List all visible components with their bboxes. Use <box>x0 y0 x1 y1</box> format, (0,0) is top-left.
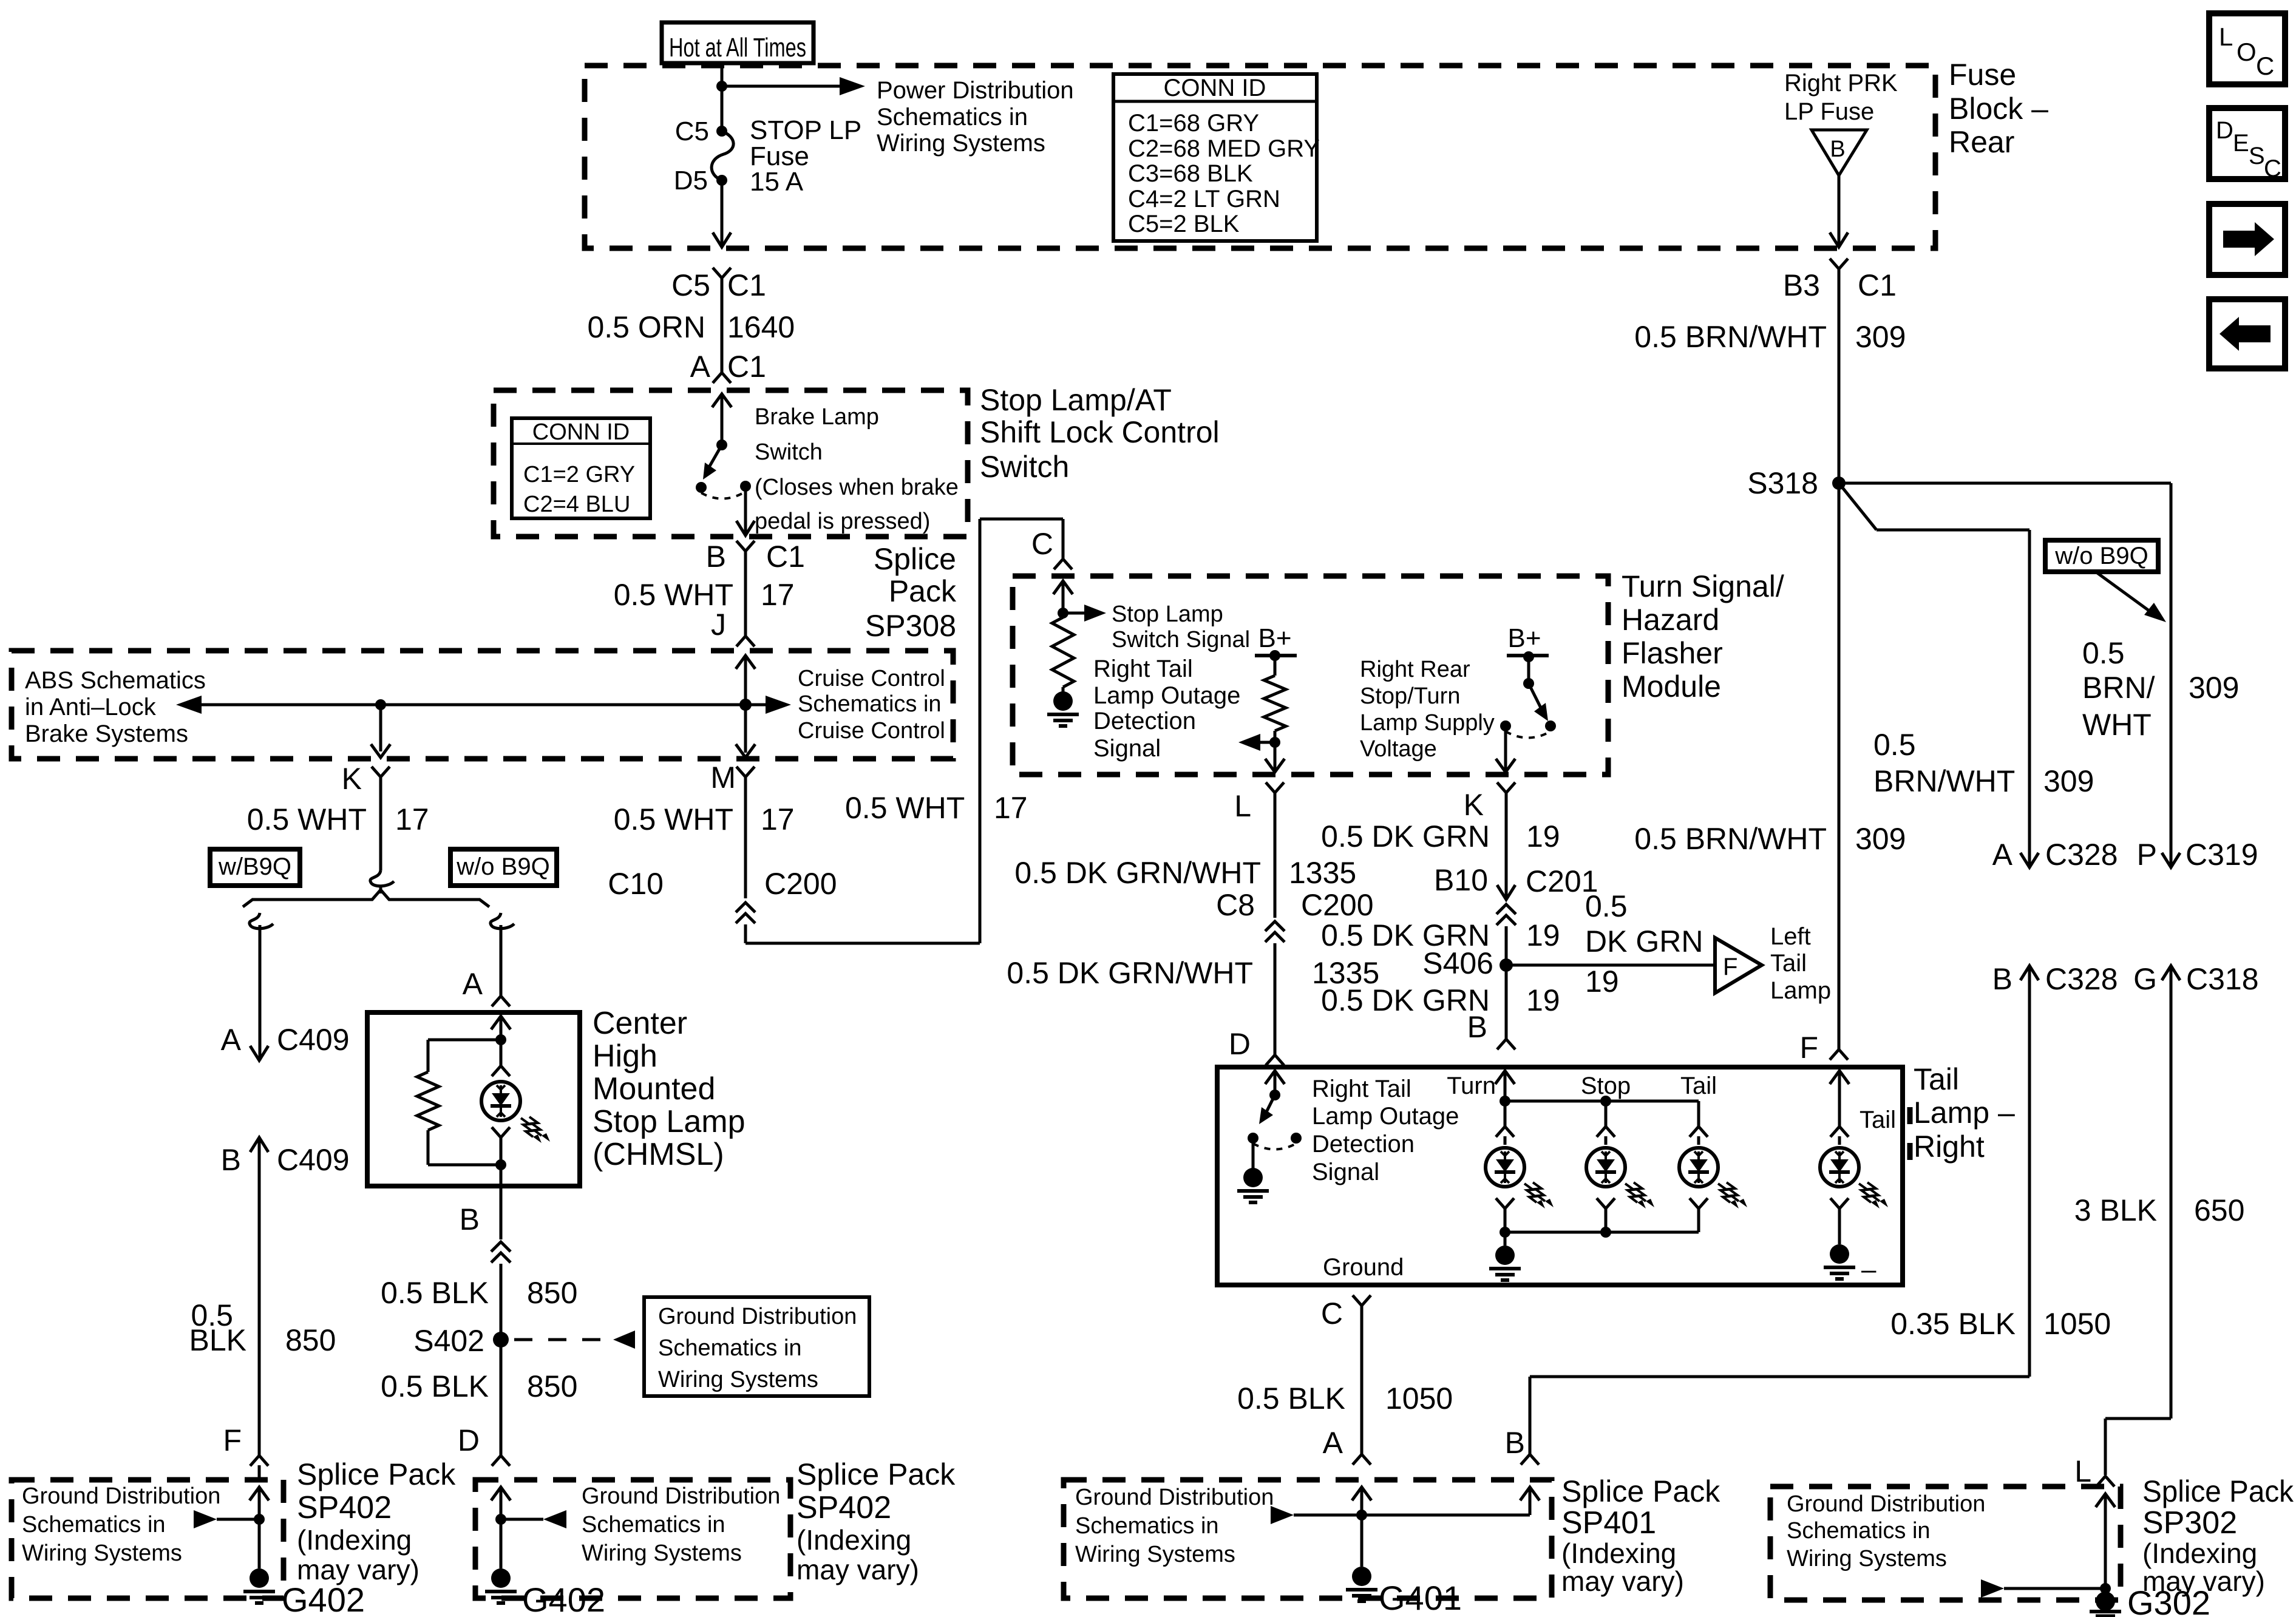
svg-text:L: L <box>2074 1454 2091 1488</box>
svg-text:Lamp –: Lamp – <box>1914 1096 2015 1130</box>
svg-text:DK GRN: DK GRN <box>1585 924 1703 958</box>
svg-text:Block –: Block – <box>1949 92 2048 126</box>
svg-text:Turn: Turn <box>1447 1073 1496 1099</box>
svg-text:C1: C1 <box>727 268 766 302</box>
svg-text:0.5: 0.5 <box>1873 728 1916 762</box>
svg-text:G401: G401 <box>1379 1579 1462 1617</box>
svg-text:19: 19 <box>1526 983 1560 1017</box>
svg-text:C8: C8 <box>1216 888 1255 922</box>
svg-text:SP302: SP302 <box>2142 1505 2237 1541</box>
svg-text:C409: C409 <box>277 1143 350 1177</box>
svg-text:pedal is pressed): pedal is pressed) <box>755 509 930 534</box>
svg-text:B: B <box>1830 137 1845 162</box>
svg-text:Center: Center <box>593 1006 687 1041</box>
svg-text:C: C <box>1321 1297 1343 1331</box>
svg-text:19: 19 <box>1585 964 1619 998</box>
svg-text:w/o B9Q: w/o B9Q <box>2054 543 2148 569</box>
svg-text:C1=68 GRY: C1=68 GRY <box>1128 110 1259 137</box>
svg-text:C2=4 BLU: C2=4 BLU <box>523 492 630 517</box>
svg-text:17: 17 <box>994 791 1028 825</box>
svg-text:Shift Lock Control: Shift Lock Control <box>980 415 1220 449</box>
svg-text:Flasher: Flasher <box>1622 636 1723 670</box>
svg-text:SP402: SP402 <box>297 1490 392 1525</box>
svg-text:Stop Lamp: Stop Lamp <box>1112 602 1223 627</box>
svg-text:C1: C1 <box>727 350 766 384</box>
svg-text:Schematics in: Schematics in <box>798 691 942 717</box>
svg-text:0.5: 0.5 <box>1585 889 1628 923</box>
svg-text:17: 17 <box>395 802 429 836</box>
svg-text:1335: 1335 <box>1289 856 1356 890</box>
svg-text:C318: C318 <box>2186 962 2259 996</box>
svg-text:Ground Distribution: Ground Distribution <box>1075 1485 1274 1510</box>
svg-text:–: – <box>1861 1255 1877 1284</box>
svg-text:0.5 WHT: 0.5 WHT <box>614 802 733 836</box>
svg-text:309: 309 <box>1855 320 1906 354</box>
svg-text:w/B9Q: w/B9Q <box>218 853 291 880</box>
svg-text:S318: S318 <box>1747 466 1818 500</box>
svg-text:M: M <box>710 761 736 795</box>
svg-text:(Indexing: (Indexing <box>297 1524 412 1556</box>
svg-text:850: 850 <box>527 1369 577 1403</box>
svg-text:Ground Distribution: Ground Distribution <box>1787 1491 1985 1517</box>
svg-text:Schematics in: Schematics in <box>877 104 1028 131</box>
svg-text:Tail: Tail <box>1680 1073 1717 1099</box>
svg-text:17: 17 <box>761 578 795 612</box>
svg-text:Signal: Signal <box>1312 1159 1379 1185</box>
svg-text:17: 17 <box>761 802 795 836</box>
svg-text:Switch: Switch <box>755 439 823 465</box>
svg-text:0.5 DK GRN/WHT: 0.5 DK GRN/WHT <box>1007 956 1253 990</box>
svg-text:Lamp: Lamp <box>1770 977 1831 1004</box>
svg-text:Splice Pack: Splice Pack <box>297 1457 456 1491</box>
svg-text:K: K <box>342 762 362 796</box>
svg-text:0.5 BLK: 0.5 BLK <box>381 1369 489 1403</box>
svg-text:SP308: SP308 <box>865 609 956 643</box>
svg-text:BRN/: BRN/ <box>2082 671 2155 705</box>
svg-text:0.5 BLK: 0.5 BLK <box>381 1276 489 1310</box>
svg-text:Switch Signal: Switch Signal <box>1112 627 1250 653</box>
svg-text:0.5 BRN/WHT: 0.5 BRN/WHT <box>1634 822 1827 856</box>
svg-text:1640: 1640 <box>727 310 795 344</box>
svg-text:C409: C409 <box>277 1023 350 1057</box>
svg-text:B: B <box>1992 962 2012 996</box>
svg-text:0.35 BLK: 0.35 BLK <box>1890 1307 2016 1341</box>
svg-text:C: C <box>2256 52 2274 80</box>
svg-text:Tail: Tail <box>1770 950 1807 977</box>
svg-text:650: 650 <box>2194 1193 2244 1227</box>
svg-text:Right PRK: Right PRK <box>1784 70 1898 97</box>
svg-text:J: J <box>711 608 726 642</box>
svg-text:may vary): may vary) <box>1561 1565 1684 1597</box>
svg-text:Tail: Tail <box>1914 1062 1959 1096</box>
svg-text:Power Distribution: Power Distribution <box>877 77 1074 104</box>
svg-text:P: P <box>2137 838 2157 872</box>
svg-text:BLK: BLK <box>189 1323 246 1357</box>
svg-text:(Indexing: (Indexing <box>1561 1537 1676 1569</box>
svg-text:(CHMSL): (CHMSL) <box>593 1137 724 1172</box>
svg-text:C200: C200 <box>1301 888 1374 922</box>
svg-text:S402: S402 <box>413 1324 484 1358</box>
svg-text:850: 850 <box>285 1323 336 1357</box>
svg-text:Ground: Ground <box>1323 1254 1404 1281</box>
svg-text:Stop: Stop <box>1581 1073 1631 1099</box>
svg-text:B: B <box>1467 1010 1487 1044</box>
svg-text:0.5: 0.5 <box>2082 636 2125 670</box>
svg-text:Stop Lamp: Stop Lamp <box>593 1104 746 1139</box>
svg-text:Signal: Signal <box>1093 735 1161 762</box>
svg-text:Splice Pack: Splice Pack <box>2142 1474 2294 1508</box>
svg-text:19: 19 <box>1526 918 1560 952</box>
svg-text:B: B <box>460 1202 480 1236</box>
svg-text:B+: B+ <box>1258 623 1291 653</box>
svg-text:Detection: Detection <box>1093 708 1196 734</box>
svg-text:Cruise Control: Cruise Control <box>798 718 945 744</box>
svg-text:C1=2 GRY: C1=2 GRY <box>523 462 635 487</box>
svg-text:Schematics in: Schematics in <box>582 1512 725 1537</box>
svg-text:B+: B+ <box>1507 623 1541 653</box>
svg-text:STOP LP: STOP LP <box>750 115 861 145</box>
svg-text:may vary): may vary) <box>796 1554 919 1585</box>
svg-text:Wiring Systems: Wiring Systems <box>658 1367 818 1392</box>
svg-text:D: D <box>2216 117 2233 144</box>
svg-text:0.5 BLK: 0.5 BLK <box>1237 1381 1345 1415</box>
svg-text:0.5 BRN/WHT: 0.5 BRN/WHT <box>1634 320 1827 354</box>
svg-text:309: 309 <box>2043 764 2094 798</box>
svg-text:Schematics in: Schematics in <box>1787 1518 1931 1544</box>
svg-text:Hot at All Times: Hot at All Times <box>669 33 806 63</box>
svg-text:Schematics in: Schematics in <box>22 1512 166 1537</box>
svg-text:Right Tail: Right Tail <box>1312 1076 1411 1102</box>
svg-text:309: 309 <box>1855 822 1906 856</box>
svg-text:D: D <box>458 1423 480 1457</box>
svg-text:C328: C328 <box>2045 962 2118 996</box>
svg-text:BRN/WHT: BRN/WHT <box>1873 764 2015 798</box>
svg-text:C5: C5 <box>671 268 710 302</box>
svg-text:Splice Pack: Splice Pack <box>1561 1474 1720 1508</box>
svg-text:F: F <box>1723 954 1737 980</box>
svg-text:1050: 1050 <box>2043 1307 2111 1341</box>
svg-text:C4=2 LT GRN: C4=2 LT GRN <box>1128 186 1280 212</box>
svg-text:Wiring Systems: Wiring Systems <box>1787 1546 1947 1571</box>
svg-text:Tail: Tail <box>1860 1107 1896 1133</box>
svg-text:C328: C328 <box>2045 838 2118 872</box>
svg-text:Stop Lamp/AT: Stop Lamp/AT <box>980 383 1172 417</box>
svg-text:CONN ID: CONN ID <box>1164 75 1266 101</box>
svg-text:E: E <box>2233 130 2249 157</box>
svg-text:S406: S406 <box>1422 946 1493 980</box>
svg-text:Right Tail: Right Tail <box>1093 656 1193 682</box>
svg-text:C5=2 BLK: C5=2 BLK <box>1128 211 1240 237</box>
svg-text:0.5 DK GRN/WHT: 0.5 DK GRN/WHT <box>1014 856 1261 890</box>
svg-text:Schematics in: Schematics in <box>658 1335 802 1361</box>
svg-text:309: 309 <box>2189 671 2239 705</box>
svg-text:Mounted: Mounted <box>593 1071 715 1107</box>
svg-text:C1: C1 <box>1858 268 1897 302</box>
svg-text:0.5 ORN: 0.5 ORN <box>587 310 705 344</box>
svg-text:Splice: Splice <box>874 542 956 576</box>
svg-text:Pack: Pack <box>889 574 957 608</box>
svg-text:O: O <box>2237 38 2257 66</box>
svg-text:D: D <box>1229 1027 1251 1061</box>
svg-text:Detection: Detection <box>1312 1131 1415 1158</box>
svg-text:Ground Distribution: Ground Distribution <box>22 1483 220 1509</box>
svg-text:Switch: Switch <box>980 450 1069 484</box>
svg-text:may vary): may vary) <box>297 1554 419 1585</box>
svg-text:SP402: SP402 <box>796 1490 891 1525</box>
svg-text:C319: C319 <box>2186 838 2258 872</box>
svg-text:C: C <box>2264 155 2281 182</box>
svg-text:L: L <box>2219 22 2233 51</box>
svg-text:(Indexing: (Indexing <box>2142 1537 2257 1569</box>
svg-text:S: S <box>2249 143 2265 169</box>
svg-text:Wiring Systems: Wiring Systems <box>582 1541 742 1566</box>
svg-text:Right: Right <box>1914 1130 1985 1164</box>
svg-text:3 BLK: 3 BLK <box>2074 1193 2157 1227</box>
svg-text:Wiring Systems: Wiring Systems <box>22 1541 182 1566</box>
svg-text:Turn Signal/: Turn Signal/ <box>1622 569 1784 603</box>
svg-text:Wiring Systems: Wiring Systems <box>877 130 1045 157</box>
svg-text:Lamp Supply: Lamp Supply <box>1360 710 1495 736</box>
svg-text:F: F <box>1799 1031 1818 1065</box>
svg-text:SP401: SP401 <box>1561 1505 1656 1541</box>
svg-text:Lamp Outage: Lamp Outage <box>1093 682 1240 709</box>
svg-text:Left: Left <box>1770 923 1811 950</box>
svg-text:Splice Pack: Splice Pack <box>796 1457 956 1491</box>
svg-text:0.5 WHT: 0.5 WHT <box>247 802 367 836</box>
svg-text:C10: C10 <box>608 867 664 901</box>
svg-text:D5: D5 <box>674 166 708 195</box>
svg-text:Brake Systems: Brake Systems <box>25 720 188 747</box>
svg-text:B: B <box>221 1143 241 1177</box>
svg-text:C1: C1 <box>766 540 805 574</box>
svg-text:K: K <box>1464 788 1484 822</box>
svg-text:Schematics in: Schematics in <box>1075 1513 1219 1539</box>
svg-text:A: A <box>690 350 711 384</box>
svg-text:A: A <box>1323 1426 1343 1460</box>
svg-text:Ground Distribution: Ground Distribution <box>658 1304 857 1329</box>
svg-text:850: 850 <box>527 1276 577 1310</box>
svg-text:B3: B3 <box>1783 268 1820 302</box>
svg-text:A: A <box>463 967 483 1001</box>
svg-text:B10: B10 <box>1434 863 1488 897</box>
svg-text:in Anti–Lock: in Anti–Lock <box>25 694 157 720</box>
svg-text:G: G <box>2133 962 2157 996</box>
svg-text:Module: Module <box>1622 670 1721 703</box>
svg-text:(Closes when brake: (Closes when brake <box>755 475 959 500</box>
svg-text:Voltage: Voltage <box>1360 736 1437 762</box>
svg-text:15 A: 15 A <box>750 167 804 197</box>
svg-text:Fuse: Fuse <box>1949 58 2016 92</box>
svg-text:w/o B9Q: w/o B9Q <box>456 853 549 880</box>
svg-text:0.5 WHT: 0.5 WHT <box>614 578 733 612</box>
svg-text:B: B <box>1505 1426 1525 1460</box>
svg-text:Right Rear: Right Rear <box>1360 657 1470 682</box>
svg-text:0.5 DK GRN: 0.5 DK GRN <box>1321 819 1490 853</box>
svg-text:may vary): may vary) <box>2142 1565 2265 1597</box>
svg-text:LP Fuse: LP Fuse <box>1784 98 1874 125</box>
svg-text:Brake Lamp: Brake Lamp <box>755 404 879 430</box>
svg-text:B: B <box>706 540 726 574</box>
svg-text:0.5 DK GRN: 0.5 DK GRN <box>1321 983 1490 1017</box>
svg-text:Lamp Outage: Lamp Outage <box>1312 1103 1459 1130</box>
svg-text:WHT: WHT <box>2082 708 2152 742</box>
svg-text:CONN ID: CONN ID <box>532 419 630 445</box>
svg-text:Wiring Systems: Wiring Systems <box>1075 1542 1235 1567</box>
svg-text:ABS Schematics: ABS Schematics <box>25 667 206 694</box>
svg-text:Ground Distribution: Ground Distribution <box>582 1483 780 1509</box>
svg-text:0.5 WHT: 0.5 WHT <box>845 791 965 825</box>
svg-text:C5: C5 <box>675 117 709 146</box>
svg-text:C2=68 MED GRY: C2=68 MED GRY <box>1128 135 1320 162</box>
svg-text:Stop/Turn: Stop/Turn <box>1360 683 1460 709</box>
svg-text:C: C <box>1031 527 1053 561</box>
svg-text:L: L <box>1234 789 1251 823</box>
svg-text:C200: C200 <box>764 867 837 901</box>
svg-text:F: F <box>223 1423 242 1457</box>
svg-text:G402: G402 <box>282 1581 365 1617</box>
svg-text:19: 19 <box>1526 819 1560 853</box>
svg-text:High: High <box>593 1039 657 1074</box>
svg-text:G402: G402 <box>522 1581 605 1617</box>
svg-text:Hazard: Hazard <box>1622 603 1719 637</box>
svg-text:A: A <box>1992 838 2013 872</box>
svg-text:(Indexing: (Indexing <box>796 1524 911 1556</box>
svg-text:1050: 1050 <box>1385 1381 1453 1415</box>
svg-text:C3=68 BLK: C3=68 BLK <box>1128 160 1253 187</box>
svg-text:A: A <box>221 1023 242 1057</box>
svg-text:Cruise Control: Cruise Control <box>798 666 945 691</box>
svg-text:Rear: Rear <box>1949 125 2014 159</box>
